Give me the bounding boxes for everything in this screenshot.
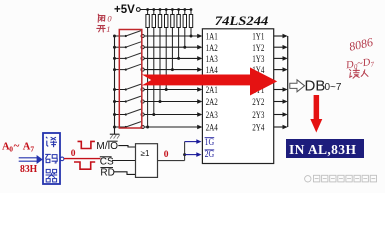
- svg-text:83H: 83H: [20, 164, 37, 175]
- label RD: [100, 167, 114, 178]
- decoder text 器: [46, 169, 58, 182]
- svg-text:1A2: 1A2: [206, 43, 218, 54]
- svg-text:1Y3: 1Y3: [252, 54, 264, 65]
- svg-text:2Y2: 2Y2: [252, 97, 264, 108]
- svg-text:1A1: 1A1: [206, 32, 218, 43]
- pin arrow row 6: [197, 99, 202, 104]
- node junction column 2 to row 7: [152, 113, 155, 116]
- svg-text:0: 0: [107, 13, 112, 23]
- node common junction 3: [113, 57, 116, 60]
- wire pull-up column 4: [165, 28, 167, 90]
- switch S8: [115, 122, 145, 129]
- red down arrow: [310, 95, 322, 133]
- wire row 1 to chip pin: [144, 35, 198, 37]
- svg-text:0~7: 0~7: [325, 82, 342, 93]
- label A0~A7: [2, 140, 34, 153]
- node rail junction 2: [152, 8, 155, 11]
- wire CS to gate: [112, 160, 136, 162]
- wire row 3 to chip pin: [144, 57, 198, 59]
- OR gate (>=1): [136, 144, 158, 178]
- address bus double arrow: [19, 155, 43, 164]
- bus arrow 1Y4: [283, 67, 288, 72]
- wire row 4 to chip pin: [144, 69, 198, 71]
- pin arrow row 4: [197, 67, 202, 72]
- svg-text:DB: DB: [305, 78, 326, 95]
- node rail junction 5: [171, 8, 174, 11]
- bus arrow 1Y2: [283, 45, 288, 50]
- node common junction 5: [113, 88, 116, 91]
- wire row 2 to chip pin: [144, 46, 198, 48]
- wire pull-up column 5: [171, 28, 173, 70]
- resistor R6: [177, 10, 180, 28]
- wire switch common line: [114, 36, 116, 134]
- switch S7: [115, 109, 145, 116]
- node rail junction 7: [183, 8, 186, 11]
- wire to 1G/2G: [184, 142, 186, 161]
- annotation 开1 (open=1): [97, 26, 105, 32]
- decoder text 码: [45, 154, 57, 163]
- wire pull-up column 1: [147, 28, 149, 128]
- svg-text:2A4: 2A4: [206, 123, 218, 134]
- resistor R2: [152, 10, 155, 28]
- decoder text 译: [46, 137, 57, 147]
- wire pull-up column 7: [184, 28, 186, 48]
- svg-text:1A3: 1A3: [206, 54, 218, 65]
- node junction column 6 to row 3: [177, 57, 180, 60]
- svg-text:2Y3: 2Y3: [252, 110, 264, 121]
- wire pull-up column 8: [190, 28, 192, 37]
- annotation D0~D7 handwritten: [344, 57, 375, 73]
- svg-text:7: 7: [30, 145, 34, 154]
- wire output stub 1Y4: [274, 69, 284, 71]
- node junction column 1 to row 8: [146, 126, 149, 129]
- label CS: [100, 156, 114, 167]
- svg-text:2A3: 2A3: [206, 110, 218, 121]
- watermark @稀土掘金技术社区: [305, 175, 377, 182]
- resistor R8: [189, 10, 192, 28]
- wire data bus vertical: [287, 36, 289, 127]
- resistor R1: [146, 10, 149, 28]
- wire pull-up column 2: [153, 28, 155, 115]
- resistor R5: [171, 10, 174, 28]
- pin label 1G (active low): [205, 137, 215, 147]
- svg-text:1: 1: [106, 24, 110, 34]
- svg-text:M/IO: M/IO: [96, 141, 118, 152]
- +5V terminal circle: [136, 8, 140, 12]
- wire RD to gate: [113, 172, 135, 175]
- switch S6: [115, 96, 145, 103]
- wire row 7 to chip pin: [144, 114, 198, 116]
- svg-text:0: 0: [71, 149, 76, 159]
- pin arrow row 8: [197, 125, 202, 130]
- node rail junction 3: [159, 8, 162, 11]
- svg-text:~: ~: [14, 140, 20, 152]
- node junction column 5 to row 4: [171, 68, 174, 71]
- pin arrow row 3: [197, 56, 202, 61]
- svg-text:IN AL,83H: IN AL,83H: [289, 142, 356, 157]
- wire row 5 to chip pin: [144, 89, 198, 91]
- svg-text:0: 0: [164, 150, 169, 160]
- node common junction 1: [113, 35, 116, 38]
- bus arrow 1Y1: [283, 34, 288, 39]
- svg-text:+5V: +5V: [114, 4, 135, 16]
- pin arrow row 2: [197, 45, 202, 50]
- decoder output bubble: [60, 157, 64, 161]
- instruction box IN AL,83H: [286, 139, 364, 158]
- annotation 闭0 (closed=0): [98, 14, 105, 22]
- waveform pulse RD: [74, 162, 95, 169]
- svg-text:1Y2: 1Y2: [252, 43, 264, 54]
- resistor R3: [158, 10, 161, 28]
- wire output stub 2Y4: [274, 126, 284, 128]
- switch S1: [115, 31, 145, 38]
- wire output stub 1Y1: [274, 35, 284, 37]
- IC U1 74LS244: [202, 29, 273, 164]
- wire decoder to CS (red, logic 0): [64, 158, 101, 160]
- bus arrow 2Y4: [283, 125, 288, 130]
- node common junction 6: [113, 100, 116, 103]
- node junction column 3 to row 6: [159, 100, 162, 103]
- wire output stub 1Y3: [274, 57, 284, 59]
- node rail junction 4: [165, 8, 168, 11]
- node junction column 7 to row 2: [183, 46, 186, 49]
- svg-text:2Y4: 2Y4: [252, 123, 264, 134]
- wire+arrow into 1G: [185, 139, 202, 144]
- svg-text:74LS244: 74LS244: [215, 13, 269, 28]
- waveform pulse M/IO: [78, 141, 95, 148]
- node common junction 4: [113, 68, 116, 71]
- wire pull-up column 3: [159, 28, 161, 102]
- resistor R4: [165, 10, 168, 28]
- bus arrow 2Y3: [283, 112, 288, 117]
- switch S2: [115, 42, 145, 49]
- pin arrow row 1: [197, 34, 202, 39]
- bus arrow 2Y1: [283, 87, 288, 92]
- annotation big red data-flow arrow: [142, 67, 277, 95]
- resistor R7: [183, 10, 186, 28]
- svg-text:1Y1: 1Y1: [252, 32, 264, 43]
- wire row 6 to chip pin: [144, 101, 198, 103]
- wire pull-up column 6: [178, 28, 180, 59]
- node rail junction 1: [146, 8, 149, 11]
- bus arrow 1Y3: [283, 56, 288, 61]
- label DB0~7: [305, 78, 342, 95]
- wire M/IO to gate: [118, 146, 135, 147]
- wire output stub 2Y3: [274, 114, 284, 116]
- annotation 读入 handwritten: [350, 69, 368, 79]
- wire +5V rail: [140, 9, 191, 11]
- node rail junction 6: [177, 8, 180, 11]
- svg-text:1G: 1G: [205, 137, 215, 147]
- wire output stub 2Y2: [274, 101, 284, 103]
- bus arrow 2Y2: [283, 99, 288, 104]
- node common junction 8: [113, 126, 116, 129]
- svg-text:2G: 2G: [205, 149, 215, 159]
- svg-text:CS: CS: [100, 156, 114, 167]
- DIP switch box: [119, 30, 142, 129]
- svg-text:RD: RD: [100, 167, 114, 178]
- node 1G/2G branch: [183, 153, 186, 156]
- switch S5: [115, 84, 145, 91]
- svg-text:≥1: ≥1: [141, 149, 150, 158]
- svg-text:2A2: 2A2: [206, 97, 218, 108]
- label M/IO: [96, 141, 118, 152]
- pin arrow row 5: [197, 87, 202, 92]
- wire output stub 2Y1: [274, 89, 284, 91]
- decoder box 译码器: [43, 133, 60, 184]
- node common junction 7: [113, 113, 116, 116]
- svg-text:2A1: 2A1: [206, 85, 218, 96]
- node junction column 8 to row 1: [190, 35, 193, 38]
- wire row 8 to chip pin: [144, 126, 198, 128]
- wire+arrow into 2G: [185, 152, 202, 157]
- switch S3: [115, 53, 145, 60]
- pin arrow row 7: [197, 112, 202, 117]
- node rail junction 8: [190, 8, 193, 11]
- wire gate output: [158, 160, 185, 162]
- switch S4: [115, 64, 145, 71]
- ground: [110, 134, 120, 139]
- node common junction 2: [113, 46, 116, 49]
- node junction column 4 to row 5: [165, 88, 168, 91]
- wire output stub 1Y2: [274, 46, 284, 48]
- bus arrow symbol (hollow): [290, 80, 305, 92]
- pin label 2G (active low): [205, 149, 215, 159]
